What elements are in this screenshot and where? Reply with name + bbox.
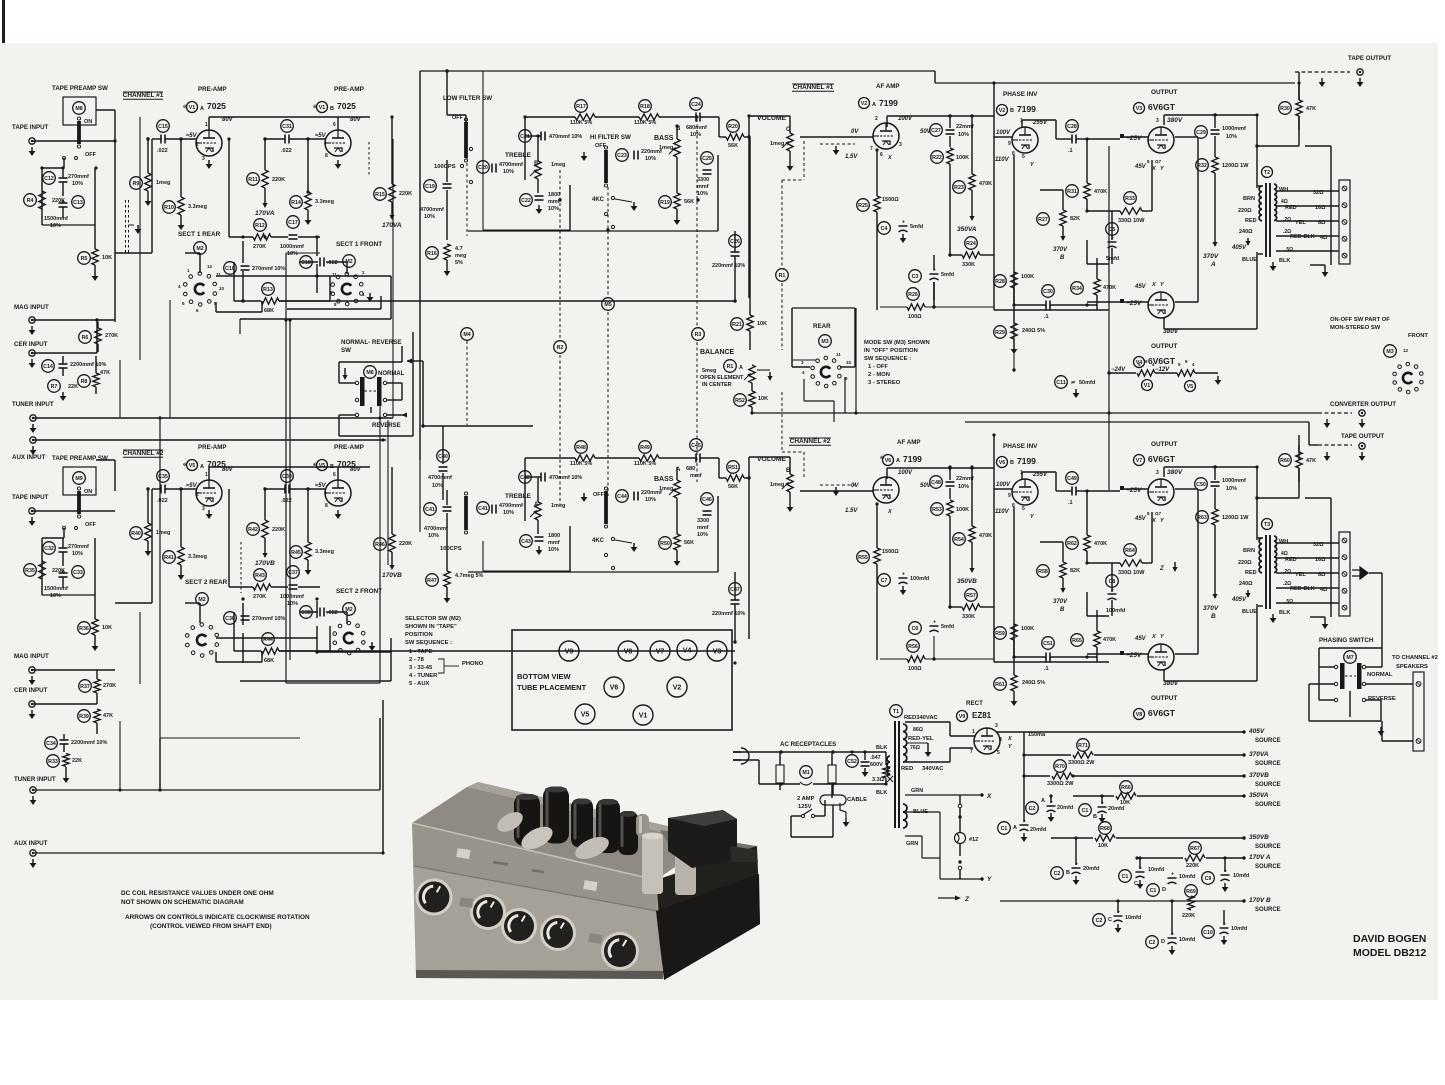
svg-text:47K: 47K bbox=[1306, 106, 1316, 112]
svg-text:RED-BLK: RED-BLK bbox=[1290, 234, 1315, 240]
svg-text:R14: R14 bbox=[291, 200, 301, 206]
svg-text:OFF: OFF bbox=[593, 492, 605, 498]
svg-text:+: + bbox=[902, 220, 905, 226]
svg-text:170V A: 170V A bbox=[1249, 854, 1271, 861]
svg-text:TAPE PREAMP SW: TAPE PREAMP SW bbox=[52, 85, 108, 92]
svg-text:BLK: BLK bbox=[876, 745, 887, 751]
svg-text:C44: C44 bbox=[617, 494, 627, 500]
svg-text:CER INPUT: CER INPUT bbox=[14, 687, 48, 694]
svg-text:R5: R5 bbox=[81, 256, 88, 262]
svg-text:WH: WH bbox=[1279, 187, 1288, 193]
svg-text:R25: R25 bbox=[858, 203, 868, 209]
svg-text:47K: 47K bbox=[1306, 458, 1316, 464]
svg-text:B: B bbox=[1010, 108, 1014, 114]
svg-text:3.3meg: 3.3meg bbox=[315, 199, 334, 205]
svg-text:NORMAL: NORMAL bbox=[378, 371, 405, 377]
svg-text:R69: R69 bbox=[1186, 889, 1196, 895]
svg-text:C6: C6 bbox=[912, 626, 919, 632]
svg-text:IN CENTER: IN CENTER bbox=[702, 382, 732, 388]
svg-text:240Ω: 240Ω bbox=[1239, 581, 1253, 587]
svg-text:BALANCE: BALANCE bbox=[700, 349, 735, 356]
svg-text:110K 5%: 110K 5% bbox=[634, 120, 656, 126]
svg-text:C9: C9 bbox=[1205, 876, 1212, 882]
svg-text:mmf: mmf bbox=[690, 473, 702, 479]
svg-text:5mfd: 5mfd bbox=[941, 272, 954, 278]
svg-text:C43: C43 bbox=[521, 539, 531, 545]
svg-text:RED340VAC: RED340VAC bbox=[904, 715, 939, 721]
svg-text:V2: V2 bbox=[999, 108, 1006, 114]
svg-text:OPEN ELEMENT: OPEN ELEMENT bbox=[700, 375, 744, 381]
svg-text:3: 3 bbox=[899, 142, 902, 148]
svg-text:R1: R1 bbox=[727, 364, 734, 370]
svg-text:R10: R10 bbox=[164, 205, 174, 211]
svg-text:RECT: RECT bbox=[966, 700, 983, 707]
svg-text:56K: 56K bbox=[728, 484, 738, 490]
svg-text:270K: 270K bbox=[253, 244, 266, 250]
svg-text:12: 12 bbox=[207, 264, 213, 269]
svg-text:100V: 100V bbox=[996, 482, 1011, 488]
svg-text:SPEAKERS: SPEAKERS bbox=[1396, 664, 1428, 670]
svg-text:4KC: 4KC bbox=[592, 538, 605, 544]
svg-text:C46: C46 bbox=[702, 497, 712, 503]
svg-text:C15: C15 bbox=[158, 124, 168, 130]
svg-text:R64: R64 bbox=[1125, 548, 1135, 554]
svg-text:.022: .022 bbox=[327, 260, 338, 266]
svg-text:2200mmf 10%: 2200mmf 10% bbox=[71, 740, 107, 746]
svg-text:110K 5%: 110K 5% bbox=[634, 461, 656, 467]
svg-text:370V: 370V bbox=[1203, 605, 1219, 612]
svg-text:7025: 7025 bbox=[337, 101, 356, 111]
svg-text:MON-STEREO SW: MON-STEREO SW bbox=[1330, 325, 1381, 331]
svg-text:BLUE: BLUE bbox=[1242, 257, 1257, 263]
svg-text:PHONO: PHONO bbox=[462, 661, 484, 667]
svg-text:PRE-AMP: PRE-AMP bbox=[334, 444, 365, 451]
svg-text:3 - STEREO: 3 - STEREO bbox=[868, 380, 901, 386]
svg-text:110K 5%: 110K 5% bbox=[570, 120, 592, 126]
svg-text:80V: 80V bbox=[350, 467, 362, 473]
svg-text:meg: meg bbox=[455, 253, 466, 259]
svg-text:V6: V6 bbox=[885, 458, 892, 464]
svg-text:2: 2 bbox=[196, 142, 199, 148]
svg-text:10mfd: 10mfd bbox=[1179, 874, 1195, 880]
svg-text:BLK: BLK bbox=[1279, 610, 1290, 616]
svg-text:R48: R48 bbox=[576, 445, 586, 451]
svg-text:mmf: mmf bbox=[548, 540, 560, 546]
svg-text:110K 5%: 110K 5% bbox=[570, 461, 592, 467]
svg-text:TAPE INPUT: TAPE INPUT bbox=[12, 124, 49, 131]
svg-text:170VA: 170VA bbox=[255, 210, 275, 217]
svg-text:370V: 370V bbox=[1203, 253, 1219, 260]
svg-text:BASS: BASS bbox=[654, 476, 674, 483]
svg-text:3300: 3300 bbox=[697, 518, 709, 524]
svg-text:−24V: −24V bbox=[1111, 367, 1126, 373]
svg-text:R65: R65 bbox=[1072, 638, 1082, 644]
svg-text:1: 1 bbox=[205, 122, 208, 128]
svg-text:C25: C25 bbox=[702, 156, 712, 162]
svg-text:10%: 10% bbox=[645, 156, 656, 162]
svg-text:45V: 45V bbox=[1134, 516, 1147, 522]
svg-text:V4: V4 bbox=[683, 648, 692, 655]
svg-text:R35: R35 bbox=[25, 568, 35, 574]
svg-text:TAPE OUTPUT: TAPE OUTPUT bbox=[1341, 433, 1384, 440]
svg-text:C11: C11 bbox=[1056, 380, 1065, 386]
svg-text:.022: .022 bbox=[327, 610, 338, 616]
svg-text:10: 10 bbox=[219, 286, 225, 291]
svg-text:.022: .022 bbox=[157, 498, 168, 504]
svg-text:2 AMP: 2 AMP bbox=[797, 796, 815, 802]
svg-text:ON: ON bbox=[84, 489, 92, 495]
svg-text:M1: M1 bbox=[802, 770, 809, 776]
svg-text:2: 2 bbox=[875, 116, 878, 122]
svg-text:.047: .047 bbox=[870, 755, 881, 761]
svg-text:10%: 10% bbox=[548, 206, 559, 212]
svg-text:10%: 10% bbox=[50, 593, 61, 599]
svg-text:R40: R40 bbox=[131, 531, 141, 537]
svg-text:+: + bbox=[902, 572, 905, 578]
svg-text:R20: R20 bbox=[728, 124, 738, 130]
svg-text:470K: 470K bbox=[979, 533, 992, 539]
svg-text:22K: 22K bbox=[68, 384, 78, 390]
svg-text:1500Ω: 1500Ω bbox=[882, 549, 899, 555]
svg-text:X: X bbox=[1151, 518, 1156, 524]
svg-text:10%: 10% bbox=[72, 551, 83, 557]
svg-text:1: 1 bbox=[972, 729, 975, 735]
svg-text:#12: #12 bbox=[969, 837, 978, 843]
svg-text:80V: 80V bbox=[350, 117, 362, 123]
svg-text:3: 3 bbox=[1156, 118, 1159, 124]
svg-text:A: A bbox=[200, 106, 204, 112]
svg-text:X: X bbox=[1151, 282, 1156, 288]
svg-text:SHOWN IN "TAPE": SHOWN IN "TAPE" bbox=[405, 624, 457, 630]
svg-text:R51: R51 bbox=[728, 465, 738, 471]
svg-text:470K: 470K bbox=[1094, 189, 1107, 195]
svg-text:TUNER INPUT: TUNER INPUT bbox=[14, 776, 56, 783]
svg-text:1 - TAPE: 1 - TAPE bbox=[409, 649, 433, 655]
svg-text:B: B bbox=[330, 464, 334, 470]
svg-text:10%: 10% bbox=[428, 533, 439, 539]
svg-text:4700mmf: 4700mmf bbox=[420, 207, 444, 213]
svg-text:TO CHANNEL #2: TO CHANNEL #2 bbox=[1392, 655, 1438, 661]
svg-text:1200Ω 1W: 1200Ω 1W bbox=[1222, 515, 1249, 521]
svg-text:10mfd: 10mfd bbox=[1231, 926, 1247, 932]
svg-text:20mfd: 20mfd bbox=[1108, 806, 1124, 812]
svg-text:R7: R7 bbox=[51, 384, 58, 390]
svg-text:4KC: 4KC bbox=[592, 197, 605, 203]
svg-text:10%: 10% bbox=[690, 132, 701, 138]
svg-text:+: + bbox=[933, 620, 936, 626]
svg-text:R27: R27 bbox=[1038, 217, 1048, 223]
svg-text:C33: C33 bbox=[73, 570, 83, 576]
svg-text:68K: 68K bbox=[264, 308, 274, 314]
svg-text:5: 5 bbox=[1022, 506, 1025, 512]
svg-text:C51: C51 bbox=[1043, 641, 1053, 647]
svg-text:1: 1 bbox=[205, 472, 208, 478]
svg-text:370V: 370V bbox=[1053, 599, 1068, 605]
svg-text:≈5V: ≈5V bbox=[186, 483, 198, 489]
svg-text:10%: 10% bbox=[1226, 134, 1237, 140]
svg-text:PRE-AMP: PRE-AMP bbox=[334, 86, 365, 93]
svg-text:2 - MON: 2 - MON bbox=[868, 372, 890, 378]
svg-text:220K: 220K bbox=[1186, 863, 1199, 869]
svg-text:12: 12 bbox=[1403, 348, 1409, 353]
svg-text:10K: 10K bbox=[102, 255, 112, 261]
svg-text:R13: R13 bbox=[263, 287, 273, 293]
svg-text:7025: 7025 bbox=[207, 101, 226, 111]
svg-text:C50: C50 bbox=[1196, 482, 1206, 488]
svg-text:1200Ω 1W: 1200Ω 1W bbox=[1222, 163, 1249, 169]
svg-text:45V: 45V bbox=[1134, 284, 1147, 290]
svg-text:470mmf 10%: 470mmf 10% bbox=[549, 134, 582, 140]
svg-text:DC COIL RESISTANCE VALUES: DC COIL RESISTANCE VALUES UNDER ONE OHM bbox=[121, 890, 274, 897]
svg-text:V9: V9 bbox=[959, 714, 966, 720]
svg-text:1500Ω: 1500Ω bbox=[882, 197, 899, 203]
svg-text:AF AMP: AF AMP bbox=[897, 439, 921, 446]
svg-text:3: 3 bbox=[995, 723, 998, 729]
svg-text:.1: .1 bbox=[1044, 666, 1049, 672]
svg-text:CHANNEL #1: CHANNEL #1 bbox=[123, 92, 164, 99]
svg-text:V7: V7 bbox=[1136, 458, 1143, 464]
svg-text:R36: R36 bbox=[79, 626, 89, 632]
svg-text:R42: R42 bbox=[248, 527, 258, 533]
svg-text:V5: V5 bbox=[581, 712, 590, 719]
svg-text:POSITION: POSITION bbox=[405, 632, 433, 638]
svg-text:R71: R71 bbox=[1078, 743, 1088, 749]
svg-text:270mmf 10%: 270mmf 10% bbox=[252, 616, 285, 622]
svg-text:C22: C22 bbox=[521, 198, 531, 204]
svg-text:V3: V3 bbox=[1136, 106, 1143, 112]
svg-text:405V: 405V bbox=[1231, 245, 1247, 251]
svg-text:SOURCE: SOURCE bbox=[1255, 738, 1281, 744]
svg-text:270K: 270K bbox=[253, 594, 266, 600]
svg-text:M3: M3 bbox=[1386, 349, 1393, 355]
svg-text:mmf: mmf bbox=[548, 199, 560, 205]
svg-text:C1: C1 bbox=[1150, 888, 1157, 894]
svg-text:270K: 270K bbox=[103, 683, 116, 689]
svg-text:0V: 0V bbox=[851, 129, 859, 135]
svg-text:AF AMP: AF AMP bbox=[876, 83, 900, 90]
svg-text:3: 3 bbox=[202, 156, 205, 162]
svg-text:FRONT: FRONT bbox=[1408, 333, 1428, 339]
svg-text:10%: 10% bbox=[287, 251, 298, 257]
svg-text:330Ω 10W: 330Ω 10W bbox=[1118, 570, 1145, 576]
svg-text:68K: 68K bbox=[264, 658, 274, 664]
svg-text:R45: R45 bbox=[291, 550, 301, 556]
svg-text:470K: 470K bbox=[1103, 637, 1116, 643]
svg-text:5: 5 bbox=[1022, 154, 1025, 160]
svg-text:ON-OFF SW PART OF: ON-OFF SW PART OF bbox=[1330, 317, 1390, 323]
svg-text:R4: R4 bbox=[27, 198, 34, 204]
svg-text:C2: C2 bbox=[1054, 871, 1061, 877]
svg-text:R29: R29 bbox=[995, 330, 1005, 336]
svg-text:1.5V: 1.5V bbox=[845, 508, 858, 514]
svg-text:1000mmf: 1000mmf bbox=[1222, 478, 1246, 484]
svg-text:HI FILTER SW: HI FILTER SW bbox=[590, 134, 631, 141]
svg-text:5meg: 5meg bbox=[702, 368, 716, 374]
svg-text:2200mmf 10%: 2200mmf 10% bbox=[70, 362, 106, 368]
svg-text:3: 3 bbox=[1156, 470, 1159, 476]
svg-text:M2: M2 bbox=[196, 246, 203, 252]
svg-text:B: B bbox=[1211, 613, 1216, 620]
svg-text:10%: 10% bbox=[503, 510, 514, 516]
svg-text:220K: 220K bbox=[272, 527, 285, 533]
svg-text:−25V: −25V bbox=[1126, 135, 1142, 142]
svg-text:R18: R18 bbox=[640, 104, 650, 110]
svg-text:6: 6 bbox=[333, 472, 336, 478]
svg-text:10%: 10% bbox=[1226, 486, 1237, 492]
svg-text:R33: R33 bbox=[48, 759, 58, 765]
svg-text:C30: C30 bbox=[1043, 289, 1053, 295]
svg-text:370VA: 370VA bbox=[1249, 751, 1269, 758]
svg-text:80V: 80V bbox=[222, 467, 234, 473]
svg-text:56K: 56K bbox=[684, 199, 694, 205]
svg-text:.2Ω: .2Ω bbox=[1283, 217, 1291, 223]
svg-text:V5: V5 bbox=[1187, 384, 1194, 390]
svg-text:ARROWS ON CONTROLS INDICATE: ARROWS ON CONTROLS INDICATE CLOCKWISE RO… bbox=[125, 914, 310, 921]
svg-text:X: X bbox=[986, 793, 992, 800]
svg-text:M2: M2 bbox=[198, 597, 205, 603]
svg-text:220K: 220K bbox=[272, 177, 285, 183]
svg-text:5mfd: 5mfd bbox=[941, 624, 954, 630]
svg-text:470mmf 10%: 470mmf 10% bbox=[549, 475, 582, 481]
svg-text:C1: C1 bbox=[1122, 874, 1129, 880]
svg-text:R53: R53 bbox=[932, 507, 942, 513]
svg-text:1000mmf: 1000mmf bbox=[280, 244, 304, 250]
svg-text:MAG INPUT: MAG INPUT bbox=[14, 653, 49, 660]
svg-text:R43: R43 bbox=[255, 573, 265, 579]
svg-text:BRN: BRN bbox=[1243, 196, 1255, 202]
svg-text:C41: C41 bbox=[425, 507, 435, 513]
svg-text:R3: R3 bbox=[695, 332, 702, 338]
svg-text:100K: 100K bbox=[956, 507, 969, 513]
svg-text:16Ω: 16Ω bbox=[1315, 205, 1326, 211]
svg-text:220Ω: 220Ω bbox=[1238, 560, 1252, 566]
svg-text:100V: 100V bbox=[898, 116, 913, 122]
svg-text:100K: 100K bbox=[1021, 274, 1034, 280]
svg-text:V2: V2 bbox=[861, 101, 868, 107]
svg-text:≈5V: ≈5V bbox=[186, 133, 198, 139]
svg-text:V2: V2 bbox=[673, 685, 682, 692]
svg-text:SOURCE: SOURCE bbox=[1255, 782, 1281, 788]
svg-text:R57: R57 bbox=[966, 593, 976, 599]
svg-text:220mmf 10%: 220mmf 10% bbox=[712, 263, 745, 269]
svg-text:C1: C1 bbox=[1001, 826, 1008, 832]
svg-text:9: 9 bbox=[1008, 141, 1011, 147]
svg-text:380V: 380V bbox=[1167, 469, 1183, 476]
svg-text:C10: C10 bbox=[1203, 930, 1213, 936]
svg-text:A: A bbox=[739, 365, 743, 371]
svg-text:R19: R19 bbox=[660, 200, 670, 206]
svg-text:C24: C24 bbox=[691, 102, 701, 108]
svg-text:V1: V1 bbox=[639, 713, 648, 720]
svg-text:R49: R49 bbox=[640, 445, 650, 451]
svg-text:−12V: −12V bbox=[1155, 367, 1170, 373]
svg-text:≈5V: ≈5V bbox=[315, 483, 327, 489]
svg-text:125V: 125V bbox=[798, 804, 812, 810]
svg-text:R23: R23 bbox=[954, 185, 964, 191]
svg-text:−25V: −25V bbox=[1126, 300, 1142, 307]
svg-text:C31: C31 bbox=[282, 124, 292, 130]
svg-text:CER INPUT: CER INPUT bbox=[14, 341, 48, 348]
svg-text:C32: C32 bbox=[44, 546, 54, 552]
svg-text:1meg: 1meg bbox=[770, 482, 784, 488]
svg-text:DAVID BOGEN: DAVID BOGEN bbox=[1353, 933, 1426, 945]
svg-text:R8: R8 bbox=[81, 379, 88, 385]
svg-text:GRN: GRN bbox=[906, 841, 918, 847]
svg-text:100mfd: 100mfd bbox=[910, 576, 929, 582]
svg-text:4700mmf: 4700mmf bbox=[428, 475, 452, 481]
svg-text:100V: 100V bbox=[898, 470, 913, 476]
svg-text:C23: C23 bbox=[617, 153, 627, 159]
svg-text:10K: 10K bbox=[757, 321, 767, 327]
svg-text:BRN: BRN bbox=[1243, 548, 1255, 554]
svg-text:C19: C19 bbox=[425, 184, 435, 190]
svg-text:4Ω: 4Ω bbox=[1320, 235, 1328, 241]
svg-text:V5: V5 bbox=[319, 463, 326, 469]
svg-text:3: 3 bbox=[202, 506, 205, 512]
svg-text:9: 9 bbox=[1008, 493, 1011, 499]
svg-text:10%: 10% bbox=[424, 214, 435, 220]
svg-text:82K: 82K bbox=[1070, 568, 1080, 574]
svg-text:V8: V8 bbox=[1136, 712, 1143, 718]
svg-text:TAPE PREAMP SW: TAPE PREAMP SW bbox=[52, 455, 108, 462]
svg-text:4700mmf: 4700mmf bbox=[499, 503, 523, 509]
svg-text:T2: T2 bbox=[1264, 170, 1270, 176]
svg-text:3300Ω 2W: 3300Ω 2W bbox=[1068, 760, 1095, 766]
svg-text:100V: 100V bbox=[996, 130, 1011, 136]
svg-text:(CONTROL VIEWED FROM SHAFT: (CONTROL VIEWED FROM SHAFT END) bbox=[150, 923, 272, 930]
svg-text:4.7: 4.7 bbox=[455, 246, 463, 252]
svg-text:1000mmf: 1000mmf bbox=[280, 594, 304, 600]
svg-text:270mmf: 270mmf bbox=[68, 544, 89, 550]
svg-text:OUTPUT: OUTPUT bbox=[1151, 441, 1177, 448]
svg-text:220K: 220K bbox=[399, 541, 412, 547]
svg-text:680mmf: 680mmf bbox=[686, 125, 707, 131]
svg-text:C2: C2 bbox=[1149, 940, 1156, 946]
svg-text:TUBE PLACEMENT: TUBE PLACEMENT bbox=[517, 683, 587, 692]
svg-text:680: 680 bbox=[686, 466, 695, 472]
svg-text:82K: 82K bbox=[1070, 216, 1080, 222]
svg-text:C2: C2 bbox=[1096, 918, 1103, 924]
svg-text:R50: R50 bbox=[660, 541, 670, 547]
svg-text:REVERSE: REVERSE bbox=[372, 423, 401, 429]
svg-text:RED: RED bbox=[1245, 570, 1257, 576]
svg-text:PHASING SWITCH: PHASING SWITCH bbox=[1319, 637, 1374, 644]
svg-text:A: A bbox=[1041, 798, 1045, 804]
svg-text:C18: C18 bbox=[301, 260, 311, 266]
svg-text:mmf: mmf bbox=[697, 525, 709, 531]
svg-text:PHASE INV: PHASE INV bbox=[1003, 91, 1038, 98]
svg-text:R12: R12 bbox=[255, 223, 265, 229]
svg-text:R56: R56 bbox=[908, 644, 918, 650]
svg-text:10%: 10% bbox=[50, 223, 61, 229]
svg-text:BLK: BLK bbox=[1279, 258, 1290, 264]
svg-text:C28: C28 bbox=[1067, 124, 1077, 130]
svg-text:M7: M7 bbox=[1346, 655, 1353, 661]
svg-text:C41: C41 bbox=[478, 506, 488, 512]
svg-text:B: B bbox=[1093, 814, 1097, 820]
svg-text:AUX INPUT: AUX INPUT bbox=[12, 454, 46, 461]
svg-text:V8: V8 bbox=[624, 649, 633, 656]
svg-text:A: A bbox=[200, 464, 204, 470]
svg-text:T3: T3 bbox=[1264, 522, 1270, 528]
svg-text:Z: Z bbox=[1159, 566, 1164, 572]
svg-text:SOURCE: SOURCE bbox=[1255, 761, 1281, 767]
svg-text:170V B: 170V B bbox=[1249, 897, 1271, 904]
svg-text:1meg: 1meg bbox=[551, 503, 565, 509]
svg-text:PRE-AMP: PRE-AMP bbox=[198, 444, 227, 451]
svg-text:110V: 110V bbox=[995, 509, 1010, 515]
svg-text:170VA: 170VA bbox=[382, 222, 402, 229]
